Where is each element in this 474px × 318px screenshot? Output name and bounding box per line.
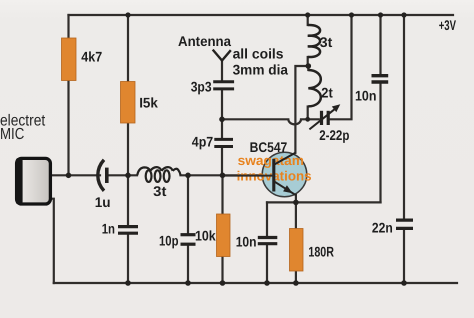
resistor R3 10k [217, 214, 231, 257]
inductor L3 2t vertical coil [308, 70, 321, 106]
svg-text:BC547: BC547 [250, 139, 288, 155]
resistor R1 4k7 [62, 38, 77, 81]
svg-text:22n: 22n [372, 220, 393, 236]
resistor R4 180R [290, 229, 304, 272]
wire 4k7 column bottom to mic node [67, 81, 69, 176]
svg-text:4p7: 4p7 [192, 134, 214, 150]
wire 10p column [187, 175, 189, 233]
wire jog tap to collector [295, 66, 308, 153]
svg-text:3t: 3t [320, 34, 333, 50]
resistor R2 15k [121, 82, 136, 124]
svg-text:2-22p: 2-22p [319, 127, 349, 143]
wire 4k7 column top [67, 15, 69, 38]
svg-text:MIC: MIC [0, 126, 24, 143]
wire mic ground [49, 199, 54, 283]
wire top +3V rail [69, 14, 454, 16]
wire emitter node horizontal [267, 201, 381, 203]
wire 1n bottom to ground rail [127, 235, 129, 283]
wire 15k column top [127, 15, 129, 82]
trimmer arrow [309, 104, 340, 129]
wire 3t coil top lead [307, 15, 309, 25]
transistor Q1 emitter lead [274, 181, 296, 195]
wire coil to base junctions [181, 174, 274, 176]
transistor Q1 collector lead [274, 153, 296, 165]
wire signal line 1u to coil [107, 174, 137, 176]
wire emitter to 180R [295, 195, 297, 229]
wire 15k bottom through signal line to 1n [127, 123, 129, 225]
svg-text:10k: 10k [195, 228, 216, 244]
capacitor C2 1n [118, 227, 138, 234]
svg-text:10p: 10p [159, 233, 179, 249]
capacitor C8 22n [396, 220, 413, 228]
wire 10n right bottom to emitter line [379, 84, 381, 203]
wire 3p3 to 4p7 column [221, 91, 223, 138]
wire 10p to ground [187, 246, 189, 283]
svg-text:swagatam: swagatam [238, 153, 304, 168]
wire 2t coil top lead [307, 66, 309, 70]
wire 10n right cap top lead [379, 15, 381, 74]
svg-text:I5k: I5k [139, 94, 158, 110]
capacitor C1 1u coupling [98, 160, 107, 191]
svg-text:3mm dia: 3mm dia [233, 61, 289, 77]
svg-text:1n: 1n [102, 220, 115, 236]
wire 10k top lead [221, 175, 223, 214]
svg-text:3p3: 3p3 [191, 78, 212, 94]
svg-text:10n: 10n [236, 233, 257, 249]
wire 2t bottom lead to tank line [307, 107, 309, 119]
wire bottom ground rail [54, 282, 457, 284]
svg-text:4k7: 4k7 [81, 49, 102, 65]
inductor L1 3t horizontal coil [137, 167, 180, 182]
wire tank line right of trimmer to +3V [330, 15, 351, 119]
wire 3t coil bottom lead [307, 57, 309, 66]
wire mic output [51, 174, 101, 176]
wire tank line with hop over collector [222, 119, 319, 124]
svg-text:1u: 1u [95, 194, 111, 210]
capacitor C7 10n supply [372, 76, 389, 82]
capacitor C4 3p3 [213, 82, 234, 89]
svg-text:10n: 10n [355, 87, 376, 103]
transistor Q1 emitter arrow [283, 185, 293, 193]
wire 10n left cap top lead [266, 202, 268, 235]
svg-text:2t: 2t [321, 85, 333, 101]
svg-text:all coils: all coils [233, 45, 284, 61]
wire 10k bottom lead [221, 257, 223, 284]
inductor L2 3t vertical coil [308, 25, 320, 57]
capacitor C5 4p7 [214, 139, 233, 146]
capacitor C3 10p [181, 235, 196, 245]
wire 22n bottom [403, 230, 405, 283]
transistor Q1 BC547 circle [262, 152, 307, 197]
svg-text:3t: 3t [153, 183, 167, 199]
electret MIC body [16, 158, 51, 204]
antenna symbol [213, 50, 231, 61]
trimmer capacitor 2-22p plates [322, 111, 329, 125]
wire 4p7 to base line [221, 148, 223, 175]
svg-text:Antenna: Antenna [178, 33, 231, 49]
wire 22n column top [403, 15, 405, 219]
transistor Q1 base lead over watermark [223, 175, 274, 177]
svg-text:180R: 180R [308, 244, 334, 260]
wire antenna stem [221, 61, 223, 81]
transistor Q1 base bar [272, 159, 275, 192]
capacitor C6 10n emitter bypass [258, 238, 278, 244]
wire 180R to ground [295, 271, 297, 283]
svg-text:+3V: +3V [439, 17, 457, 33]
wire 10n left cap bottom lead [266, 246, 268, 283]
